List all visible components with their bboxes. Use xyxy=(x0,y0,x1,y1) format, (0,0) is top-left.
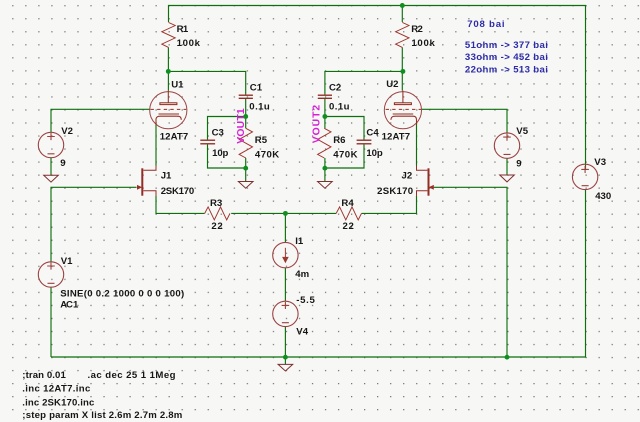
svg-text:708 bai: 708 bai xyxy=(467,19,504,30)
svg-text:22: 22 xyxy=(211,221,222,232)
svg-text:R4: R4 xyxy=(341,198,354,209)
svg-text:22: 22 xyxy=(343,221,354,232)
svg-text:C3: C3 xyxy=(212,127,224,138)
svg-text:100k: 100k xyxy=(177,38,201,49)
svg-text:V2: V2 xyxy=(61,126,73,137)
svg-text:SINE(0 0.2 1000 0 0 0 100): SINE(0 0.2 1000 0 0 0 100) xyxy=(60,288,184,299)
svg-text:51ohm -> 377 bai: 51ohm -> 377 bai xyxy=(465,40,548,51)
svg-text:470K: 470K xyxy=(255,149,279,160)
svg-text:VOUT2: VOUT2 xyxy=(311,105,322,144)
svg-text:C2: C2 xyxy=(329,83,341,94)
svg-text:100k: 100k xyxy=(411,38,435,49)
svg-text:9: 9 xyxy=(516,158,521,169)
svg-text:U1: U1 xyxy=(171,80,184,91)
svg-text:R6: R6 xyxy=(333,135,345,146)
svg-text:2SK170: 2SK170 xyxy=(377,186,413,197)
svg-text:J1: J1 xyxy=(161,171,172,182)
svg-text:U2: U2 xyxy=(386,79,398,90)
svg-text:R5: R5 xyxy=(255,135,268,146)
svg-text:;tran 0.01: ;tran 0.01 xyxy=(22,370,66,381)
svg-text:9: 9 xyxy=(60,158,65,169)
svg-text:R2: R2 xyxy=(411,24,423,35)
svg-text:VOUT1: VOUT1 xyxy=(236,108,247,144)
svg-text:0.1u: 0.1u xyxy=(249,101,270,112)
svg-text:V5: V5 xyxy=(516,126,528,137)
svg-text:2SK170: 2SK170 xyxy=(161,186,195,197)
svg-text:12AT7: 12AT7 xyxy=(382,132,411,143)
svg-text:I1: I1 xyxy=(295,236,304,247)
svg-text:V3: V3 xyxy=(594,157,606,168)
svg-text:430: 430 xyxy=(595,191,611,202)
svg-text:.ac dec 25 1 1Meg: .ac dec 25 1 1Meg xyxy=(88,370,176,381)
svg-text:.inc 2SK170.inc: .inc 2SK170.inc xyxy=(22,397,95,408)
svg-text:.inc 12AT7.inc: .inc 12AT7.inc xyxy=(22,383,91,394)
svg-text:22ohm -> 513 bai: 22ohm -> 513 bai xyxy=(465,64,548,75)
svg-text:AC 1: AC 1 xyxy=(60,300,79,311)
svg-text:R3: R3 xyxy=(210,198,222,209)
svg-text:;step param X list 2.6m 2.7m 2: ;step param X list 2.6m 2.7m 2.8m xyxy=(22,410,182,421)
svg-text:R1: R1 xyxy=(177,24,189,35)
svg-text:470K: 470K xyxy=(333,149,357,160)
svg-text:J2: J2 xyxy=(402,171,413,182)
svg-text:V4: V4 xyxy=(296,326,308,337)
svg-text:V1: V1 xyxy=(61,256,73,267)
svg-text:33ohm -> 452 bai: 33ohm -> 452 bai xyxy=(465,52,548,63)
svg-text:C1: C1 xyxy=(250,83,263,94)
svg-text:10p: 10p xyxy=(366,148,382,159)
svg-text:0.1u: 0.1u xyxy=(329,101,350,112)
svg-text:C4: C4 xyxy=(366,127,379,138)
svg-text:12AT7: 12AT7 xyxy=(160,132,189,143)
svg-text:10p: 10p xyxy=(212,148,228,159)
svg-text:-5.5: -5.5 xyxy=(296,295,315,306)
svg-text:4m: 4m xyxy=(295,269,309,280)
